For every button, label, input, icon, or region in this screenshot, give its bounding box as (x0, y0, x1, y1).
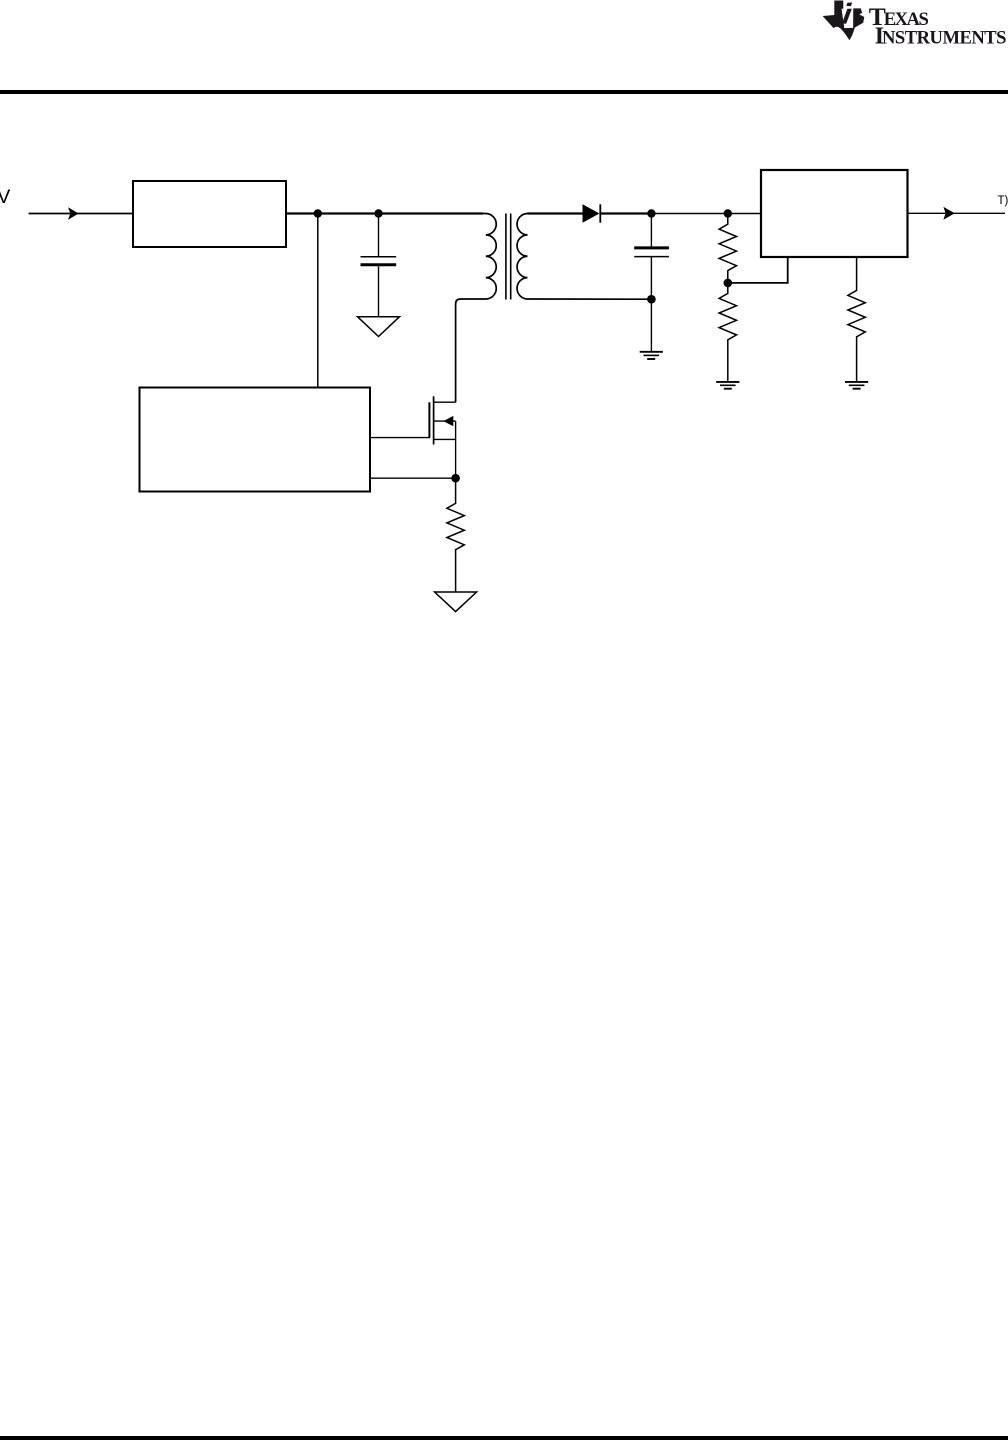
svg-text:NSTRUMENTS: NSTRUMENTS (882, 28, 1007, 49)
svg-text:V: V (0, 186, 10, 208)
svg-text:T): T) (998, 195, 1008, 207)
